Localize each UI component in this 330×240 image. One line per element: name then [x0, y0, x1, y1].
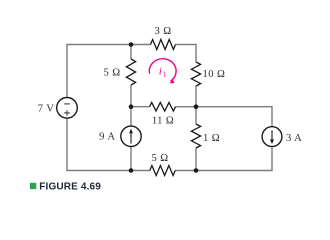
svg-text:FIGURE 4.69: FIGURE 4.69: [39, 182, 101, 193]
svg-text:3 A: 3 A: [286, 133, 302, 144]
svg-text:10 Ω: 10 Ω: [203, 69, 226, 80]
svg-text:i: i: [159, 65, 162, 77]
svg-text:9 A: 9 A: [99, 131, 115, 142]
svg-text:5 Ω: 5 Ω: [151, 153, 168, 164]
svg-text:7 V: 7 V: [38, 104, 55, 115]
svg-text:1: 1: [163, 70, 167, 78]
svg-text:5 Ω: 5 Ω: [103, 68, 120, 79]
svg-text:3 Ω: 3 Ω: [154, 26, 171, 37]
svg-text:1 Ω: 1 Ω: [203, 133, 220, 144]
svg-text:11 Ω: 11 Ω: [152, 115, 174, 126]
